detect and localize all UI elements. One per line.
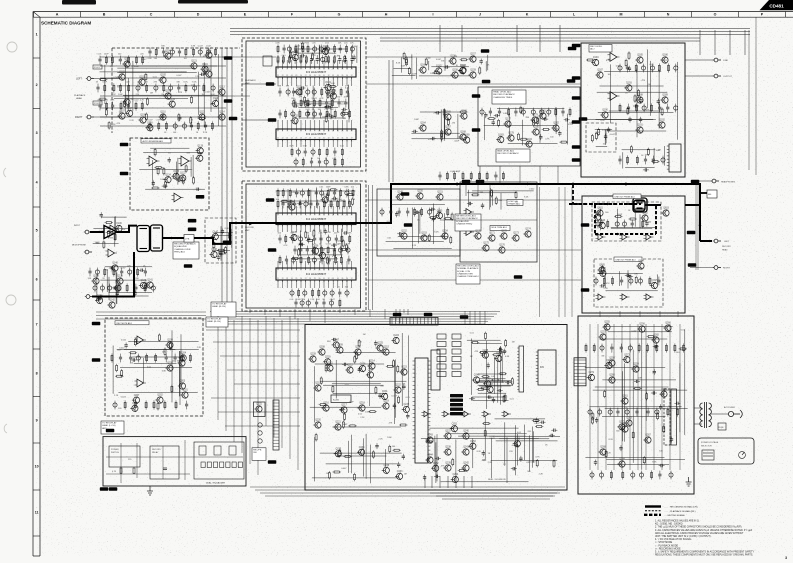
op-amp IC602c <box>644 294 654 300</box>
svg-text:EQUAL CON: EQUAL CON <box>457 270 470 273</box>
svg-text:100P: 100P <box>454 140 459 142</box>
resistor R271 <box>643 456 645 464</box>
tag C1 b <box>268 118 277 122</box>
thick dashed playback wire <box>569 203 641 205</box>
svg-text:DY K2: DY K2 <box>94 103 101 105</box>
transistor Q155 <box>435 210 443 219</box>
resistor R216 <box>134 338 136 346</box>
svg-text:Q139: Q139 <box>117 276 123 278</box>
transistor Q255 <box>602 322 610 331</box>
capacitor C110 <box>352 55 355 61</box>
transistor Q258 <box>607 358 615 367</box>
arrowhead after head <box>171 237 174 240</box>
resistor R260 <box>452 458 454 466</box>
wire to line jack L <box>685 59 714 61</box>
capacitor C214 <box>594 460 597 466</box>
transistor Q152 <box>399 231 407 240</box>
transistor Q257 <box>598 332 606 341</box>
svg-text:Q103: Q103 <box>139 77 145 79</box>
wire to right jack <box>690 267 714 269</box>
transistor Q225 <box>376 343 384 352</box>
wire playback L <box>94 78 120 80</box>
svg-text:SIDE TRIM ADJ: SIDE TRIM ADJ <box>491 226 507 229</box>
wire y220 <box>440 219 537 221</box>
svg-text:RECORD PLAYBACK: RECORD PLAYBACK <box>456 217 478 220</box>
IC7 pin ticks <box>667 146 669 169</box>
dolby NR block lower (solid) <box>246 184 361 308</box>
svg-text:34: 34 <box>337 278 339 280</box>
capacitor C204 <box>519 456 522 462</box>
transistor Q248 <box>494 353 502 362</box>
svg-text:11: 11 <box>323 130 325 132</box>
capacitor C179 <box>393 403 396 409</box>
transistor Q145 <box>113 283 121 292</box>
svg-text:35: 35 <box>342 138 344 140</box>
svg-text:AMP: AMP <box>245 229 250 232</box>
svg-text:Q271: Q271 <box>589 372 595 374</box>
playback rails <box>100 57 226 126</box>
svg-text:Q150: Q150 <box>417 191 423 193</box>
svg-text:0.022: 0.022 <box>312 98 318 100</box>
svg-text:Q224: Q224 <box>393 335 399 337</box>
svg-text:0.022: 0.022 <box>121 396 127 398</box>
jack RIGHT input <box>86 115 94 119</box>
transistor Q118 <box>145 123 153 132</box>
IC4 pin stubs bottom <box>278 225 352 233</box>
capacitor C201 <box>163 467 167 469</box>
capacitor C109 <box>152 180 155 186</box>
svg-text:4: 4 <box>291 269 292 271</box>
record EQ block <box>478 87 580 166</box>
svg-text:0.047: 0.047 <box>352 46 358 48</box>
dolby NR block upper (dashed) <box>242 38 366 171</box>
svg-text:Q115: Q115 <box>199 112 205 114</box>
transistor Q604 <box>636 261 644 270</box>
tag tm4 <box>567 79 576 83</box>
resistor R230 <box>325 364 327 372</box>
arrowhead jack L <box>709 240 712 243</box>
resistor R240 <box>354 473 356 481</box>
svg-text:4.7K: 4.7K <box>110 100 115 102</box>
transistor Q602 <box>640 213 648 222</box>
C2 row below2 <box>294 298 341 307</box>
top right verticals <box>700 30 745 55</box>
svg-text:6.8K: 6.8K <box>303 146 308 148</box>
svg-text:Q244: Q244 <box>427 455 433 457</box>
svg-text:Q273: Q273 <box>624 354 630 356</box>
svg-text:Q221: Q221 <box>335 422 341 424</box>
capacitor C124 <box>288 200 294 203</box>
svg-text:2.2K: 2.2K <box>156 120 161 122</box>
resistor R212 <box>115 375 123 377</box>
rec/play head 2 <box>633 198 647 212</box>
svg-text:1: 1 <box>36 32 38 36</box>
svg-text:RECORD: RECORD <box>722 246 731 248</box>
resistor R278 <box>633 387 641 389</box>
transistor Q241 <box>461 447 469 456</box>
svg-text:0.047: 0.047 <box>328 204 334 206</box>
resistor R151 <box>306 239 314 241</box>
pb parts row4 <box>148 120 214 135</box>
resistor R213 <box>129 352 137 354</box>
arrowhead down thick <box>699 225 702 228</box>
bias row 2 <box>93 283 155 292</box>
svg-text:33K: 33K <box>109 237 113 239</box>
transistor Q601 <box>595 208 603 217</box>
svg-text:8.2K: 8.2K <box>600 120 605 122</box>
svg-text:1: 1 <box>278 214 279 216</box>
svg-text:Q157: Q157 <box>470 54 476 56</box>
transistor Q188 <box>635 95 643 104</box>
svg-text:0.022: 0.022 <box>529 188 535 190</box>
resistor R111 <box>145 113 147 121</box>
svg-text:0.047: 0.047 <box>631 331 637 333</box>
resistor R131 <box>341 113 349 115</box>
transistor Q261 <box>620 396 628 405</box>
svg-text:TO REC/PLAY: TO REC/PLAY <box>102 422 117 425</box>
capacitor C213 <box>670 437 673 443</box>
BL0 row2 <box>113 400 188 409</box>
thick wire line input L <box>90 231 104 233</box>
resistor R233 <box>397 365 399 373</box>
resistor R124 <box>344 55 346 63</box>
svg-text:6.8K: 6.8K <box>162 370 167 372</box>
svg-text:Q230: Q230 <box>325 357 331 359</box>
svg-text:1M: 1M <box>648 84 651 86</box>
svg-text:UNIT. THE SWITTED UNIT IS V. (: UNIT. THE SWITTED UNIT IS V. (0.155) = (… <box>655 536 711 538</box>
resistor R167 <box>428 234 430 242</box>
transistor Q124 <box>163 174 171 183</box>
svg-text:33: 33 <box>332 138 334 140</box>
svg-text:Q235: Q235 <box>336 449 342 451</box>
resistor R158 <box>218 252 226 254</box>
svg-text:Q269: Q269 <box>606 360 612 362</box>
svg-text:2.2K: 2.2K <box>310 299 315 301</box>
C1 row mid3 <box>278 109 350 118</box>
svg-text:1M: 1M <box>110 66 113 68</box>
IC3 pin stubs bottom <box>278 77 352 86</box>
svg-text:2.2K: 2.2K <box>604 288 609 290</box>
transistor Q105 <box>158 75 166 84</box>
svg-text:0.047: 0.047 <box>176 75 182 77</box>
C2 row mid2 <box>293 244 350 259</box>
left border ruler <box>33 12 40 557</box>
svg-text:6.8K: 6.8K <box>503 113 508 115</box>
tag TR edge <box>572 44 581 48</box>
resistor R108 <box>178 113 180 121</box>
svg-text:8.2K: 8.2K <box>290 146 295 148</box>
capacitor C137 <box>100 212 103 218</box>
svg-text:10K: 10K <box>486 65 490 67</box>
svg-text:Q110: Q110 <box>160 112 166 114</box>
svg-text:Q170: Q170 <box>475 231 481 233</box>
transistor Q126 <box>196 145 204 154</box>
transistor Q136 <box>311 246 319 255</box>
arrowhead mid2 <box>527 183 530 186</box>
resistor R259 <box>553 459 555 467</box>
svg-text:Q204: Q204 <box>180 353 186 355</box>
resistor R273 <box>679 348 687 350</box>
transistor Q142 <box>107 300 115 309</box>
resistor R129 <box>327 91 329 99</box>
svg-text:36: 36 <box>346 138 348 140</box>
transistor Q132 <box>290 116 298 125</box>
transistor Q217 <box>339 405 347 414</box>
circles column small <box>258 423 262 443</box>
transistor Q154 <box>440 231 448 240</box>
resistor R180 <box>403 52 405 60</box>
transistor Q146 <box>114 223 122 232</box>
capacitor C115 <box>293 104 299 107</box>
svg-text:35: 35 <box>342 278 344 280</box>
transistor Q121 <box>189 61 197 70</box>
capacitor C168 <box>604 134 607 140</box>
playback input block <box>0 0 1 1</box>
svg-text:H: H <box>385 13 388 17</box>
svg-text:8.2K: 8.2K <box>306 109 311 111</box>
transistor Q127 <box>291 52 299 61</box>
resistor R149 <box>326 256 328 264</box>
transistor Q117 <box>125 108 133 117</box>
resistor R185 <box>560 141 568 143</box>
tag play 1 <box>462 180 471 184</box>
resistor R236 <box>348 425 356 427</box>
svg-text:16: 16 <box>346 68 348 70</box>
svg-text:28: 28 <box>309 75 311 77</box>
vertical wire bundle below dolby <box>250 309 408 323</box>
resistor R137 <box>280 200 288 202</box>
BC bottom verticals <box>425 476 472 488</box>
svg-text:Q114: Q114 <box>219 112 225 114</box>
transistor Q134 <box>321 195 329 204</box>
capacitor C211 <box>674 402 680 405</box>
transistor Q175 <box>481 243 489 252</box>
transistor Q165 <box>443 112 451 121</box>
svg-text:10: 10 <box>319 269 321 271</box>
svg-text:Q142: Q142 <box>109 300 115 302</box>
op-amp IC601a <box>596 234 606 240</box>
svg-text:0.022: 0.022 <box>534 423 540 425</box>
svg-text:HEADPHONES: HEADPHONES <box>721 181 736 184</box>
svg-text:HEAD: HEAD <box>76 97 82 100</box>
resistor R173 <box>459 111 467 113</box>
svg-text:B: B <box>103 13 106 17</box>
svg-text:0.047: 0.047 <box>205 92 211 94</box>
transistor Q116 <box>211 98 219 107</box>
tag MR left 1 <box>581 223 590 227</box>
resistor R192 <box>520 106 522 114</box>
svg-text:Q191: Q191 <box>637 125 643 127</box>
svg-text:ADJ: ADJ <box>590 48 594 51</box>
transistor Q119 <box>200 64 208 73</box>
dashed line out sub box lower <box>594 259 663 307</box>
capacitor C155 <box>542 117 548 120</box>
resistor R211 <box>121 369 123 377</box>
svg-text:DUAL / EQUALIZER: DUAL / EQUALIZER <box>206 482 225 485</box>
thick wire head to switch <box>163 237 194 239</box>
svg-text:LEFT: LEFT <box>724 241 730 243</box>
svg-text:DY K1: DY K1 <box>94 67 101 69</box>
svg-text:N: N <box>667 13 670 17</box>
capacitor C194 <box>435 457 441 460</box>
transistor Q201 <box>180 390 188 399</box>
svg-text:BIAS LEVEL ADJ: BIAS LEVEL ADJ <box>497 150 514 153</box>
dashed boundary playback board <box>112 48 240 133</box>
thick dashed rec wire <box>573 184 633 204</box>
thick wire into jacks <box>685 204 700 206</box>
resistor R204 <box>630 145 632 153</box>
transistor Q237 <box>443 431 451 440</box>
capacitor C188 <box>497 348 503 351</box>
psu vertical wires <box>590 324 680 470</box>
svg-text:J: J <box>479 13 481 17</box>
capacitor C187 <box>397 462 400 468</box>
transistor Q106 <box>122 97 130 106</box>
MR loop row <box>596 219 644 228</box>
svg-text:100P: 100P <box>412 73 417 75</box>
IC IC4 dolby upper <box>276 213 356 226</box>
svg-text:□ : STOP MODE: □ : STOP MODE <box>655 541 673 544</box>
transistor Q131 <box>324 82 332 91</box>
svg-text:3: 3 <box>785 556 787 560</box>
svg-text:RECORD PLAYBACK: RECORD PLAYBACK <box>174 243 196 246</box>
svg-text:8: 8 <box>310 269 311 271</box>
svg-text:Q226: Q226 <box>360 363 366 365</box>
svg-text:6: 6 <box>301 269 302 271</box>
svg-text:8: 8 <box>36 371 38 375</box>
svg-text:24: 24 <box>291 75 293 77</box>
svg-text:Q185: Q185 <box>637 55 643 57</box>
resistor R115 <box>185 164 187 172</box>
svg-text:25: 25 <box>296 278 298 280</box>
svg-text:Q209: Q209 <box>337 345 343 347</box>
op-amp IC1 mic amp L <box>108 225 120 233</box>
resistor R156 <box>105 222 113 224</box>
resistor R161 <box>213 241 215 249</box>
svg-text:3: 3 <box>36 131 38 135</box>
transistor Q130 <box>294 87 302 96</box>
wires C1 to TR <box>366 57 581 84</box>
transistor Q204 <box>179 353 187 362</box>
resistor R277 <box>663 425 665 433</box>
capacitor C132 <box>112 286 118 289</box>
svg-text:Q602: Q602 <box>642 213 648 215</box>
resistor R143 <box>313 229 315 237</box>
resistor R205 <box>595 132 597 140</box>
op-amp IC2 (2/2) <box>179 156 192 166</box>
transistor Q151 <box>435 192 443 201</box>
transistor Q215 <box>381 347 389 356</box>
component cluster: system control lower-left parts <box>312 434 402 484</box>
transistor Q178 <box>506 133 514 142</box>
svg-text:0.047: 0.047 <box>341 468 347 470</box>
label box rec pb sw <box>252 448 266 461</box>
svg-text:Q169: Q169 <box>464 135 470 137</box>
psu row1 <box>585 343 685 352</box>
svg-text:100P: 100P <box>430 73 435 75</box>
svg-text:17: 17 <box>351 130 353 132</box>
svg-text:33K: 33K <box>645 154 649 156</box>
op-amp IC6 <box>482 411 492 417</box>
resistor R103 <box>204 66 206 74</box>
svg-text:Q112: Q112 <box>206 69 212 71</box>
svg-text:REC MUTE ADJ: REC MUTE ADJ <box>117 322 132 325</box>
capacitor C169 <box>600 219 603 225</box>
C1 row mid1 <box>278 86 350 101</box>
svg-text:Q167: Q167 <box>445 127 451 129</box>
svg-text:RELAY: RELAY <box>152 451 159 454</box>
resistor R234 <box>356 352 358 360</box>
resistor R274 <box>657 412 659 420</box>
svg-text:47K: 47K <box>178 92 182 94</box>
transistor Q272 <box>617 422 625 431</box>
svg-text:10K: 10K <box>468 204 472 206</box>
transistor Q232 <box>402 404 410 413</box>
capacitor C134 <box>109 266 115 269</box>
svg-text:3: 3 <box>287 214 288 216</box>
svg-text:Q172: Q172 <box>501 231 507 233</box>
tag C2 b <box>268 248 277 252</box>
transistor Q176 <box>497 245 505 254</box>
op-amp IC9 <box>502 411 512 417</box>
transistor Q254 <box>451 474 459 483</box>
svg-text:26: 26 <box>300 75 302 77</box>
transistor Q184 <box>525 139 533 148</box>
transistor Q123 <box>172 171 180 180</box>
svg-text:RECORD PLAYBACK: RECORD PLAYBACK <box>497 152 519 155</box>
tag TR edge <box>572 120 581 124</box>
top bus verticals <box>440 25 560 52</box>
C1 row below2 <box>294 157 344 166</box>
resistor R187 <box>519 138 527 140</box>
label AUTO REVERSE ADJ <box>141 139 171 143</box>
svg-text:Q132: Q132 <box>292 116 298 118</box>
svg-text:Q242: Q242 <box>463 463 469 465</box>
transistor Q196 <box>598 220 606 229</box>
resistor R136 <box>304 96 306 104</box>
svg-text:1M: 1M <box>515 202 518 204</box>
svg-text:6.8K: 6.8K <box>331 83 336 85</box>
svg-text:100P: 100P <box>326 187 331 189</box>
svg-text:0.047: 0.047 <box>198 46 204 48</box>
svg-text:Q141: Q141 <box>147 280 153 282</box>
svg-text:0.022: 0.022 <box>336 240 342 242</box>
svg-text:CHANGE-OVER: CHANGE-OVER <box>174 248 191 251</box>
resistor R221 <box>358 339 360 347</box>
label box side trim <box>490 226 510 231</box>
transistor Q264 <box>617 459 625 468</box>
notes text block <box>655 520 754 557</box>
svg-text:25: 25 <box>296 75 298 77</box>
svg-text:Q236: Q236 <box>384 465 390 467</box>
svg-text:11: 11 <box>35 510 39 514</box>
transistor Q129 <box>329 91 337 100</box>
svg-text:Q234: Q234 <box>359 447 365 449</box>
transistor Q115 <box>197 112 205 121</box>
svg-text:Q182: Q182 <box>553 123 559 125</box>
svg-text:L P.B: L P.B <box>185 238 190 240</box>
pad box 600 ohm <box>707 190 717 198</box>
tag head L <box>106 429 115 433</box>
svg-text:16: 16 <box>346 269 348 271</box>
capacitor C105 <box>176 179 182 182</box>
resistor R276 <box>632 431 634 439</box>
resistor R120 <box>164 180 166 188</box>
svg-text:RECORD: RECORD <box>245 227 255 229</box>
svg-text:1M: 1M <box>601 355 604 357</box>
svg-text:100P: 100P <box>617 214 622 216</box>
svg-text:Q135: Q135 <box>291 232 297 234</box>
